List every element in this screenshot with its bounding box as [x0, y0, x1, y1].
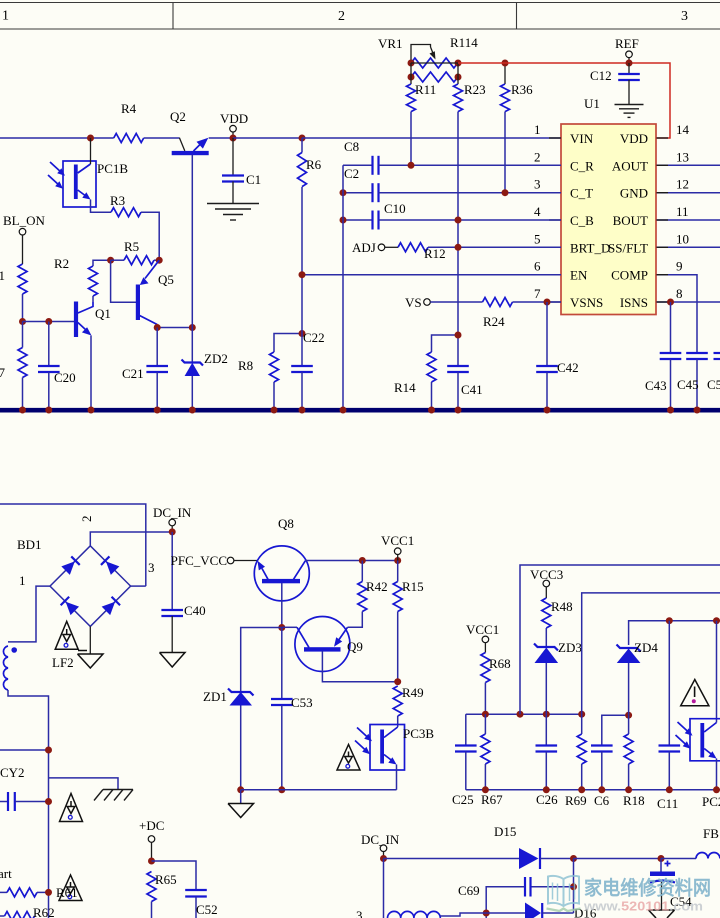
svg-text:5: 5	[534, 231, 541, 246]
resistor R67	[481, 714, 503, 807]
svg-text:C20: C20	[54, 370, 76, 385]
node R12/BRT_D	[455, 244, 462, 251]
node R61	[45, 889, 52, 896]
port +DC	[139, 818, 164, 861]
wire frame B	[582, 593, 720, 714]
safety triangle R61	[56, 875, 82, 901]
zener ZD3	[534, 640, 582, 714]
pin 9 COMP	[611, 259, 697, 353]
node C11 on frame C	[666, 617, 673, 624]
power port VCC1	[381, 533, 414, 561]
svg-text:C43: C43	[645, 378, 667, 393]
capacitor C45	[677, 353, 708, 408]
node VCC1/R15	[394, 557, 401, 564]
capacitor C22	[291, 275, 324, 408]
svg-text:C_T: C_T	[570, 186, 593, 201]
capacitor C25	[452, 714, 477, 807]
svg-text:C26: C26	[536, 792, 558, 807]
wire cap left rail down to bus	[342, 165, 344, 408]
svg-text:R68: R68	[489, 656, 511, 671]
svg-text:VIN: VIN	[570, 131, 594, 146]
resistor R2	[54, 256, 111, 302]
resistor R21 (label clipped)	[0, 264, 27, 294]
port DC_IN	[153, 505, 192, 532]
transistor Q2	[170, 109, 209, 155]
diode D15	[494, 824, 574, 869]
svg-text:3: 3	[681, 9, 688, 24]
node C22 tap	[299, 330, 306, 337]
svg-text:3: 3	[148, 560, 155, 575]
node CY2	[45, 798, 52, 805]
resistor R11	[407, 82, 437, 165]
resistor R3	[110, 193, 141, 217]
capacitor C11	[657, 621, 680, 811]
IC pin stubs	[549, 138, 668, 302]
svg-text:C5: C5	[707, 377, 720, 392]
node R36 top on red net	[502, 60, 509, 67]
node ZD1 bottom	[237, 786, 244, 793]
wire top feed	[0, 504, 146, 586]
wire bridge pin4 to ground	[89, 626, 91, 653]
svg-text:R5: R5	[124, 239, 139, 254]
power port VDD	[220, 111, 248, 138]
pin 11 BOUT	[613, 204, 720, 228]
node PC2 on frame C	[713, 617, 720, 624]
svg-text:BRT_D: BRT_D	[570, 240, 610, 255]
wire VDD rail left	[0, 137, 114, 139]
zener ZD2	[182, 328, 228, 409]
wire Q9 collector	[322, 651, 397, 682]
node C21	[154, 324, 161, 331]
wire to chassis ground	[49, 778, 119, 790]
svg-text:12: 12	[676, 177, 689, 192]
wire bottom row	[466, 789, 720, 791]
resistor R68	[481, 653, 511, 715]
svg-text:10: 10	[676, 231, 689, 246]
wire Q8 base	[281, 583, 283, 628]
svg-text:+DC: +DC	[139, 818, 164, 833]
svg-text:VCC1: VCC1	[466, 622, 499, 637]
svg-text:13: 13	[676, 149, 689, 164]
pin 2 C_R	[534, 149, 594, 173]
wire mid row 1	[466, 713, 582, 715]
svg-text:R36: R36	[511, 82, 533, 97]
wire mid row 2	[602, 715, 629, 745]
svg-text:VS: VS	[405, 295, 422, 310]
node base line left	[19, 318, 26, 325]
power port VCC3	[530, 567, 563, 598]
wire local ground row	[241, 789, 397, 791]
svg-text:Q1: Q1	[95, 306, 111, 321]
svg-text:21: 21	[0, 268, 5, 283]
capacitor C20	[38, 322, 76, 409]
bus junction nodes	[19, 407, 701, 414]
node R5 left	[107, 257, 114, 264]
capacitor C43	[645, 302, 681, 408]
svg-text:C52: C52	[196, 902, 218, 917]
capacitor C53	[271, 628, 313, 790]
resistor R4	[114, 101, 144, 143]
svg-text:ZD1: ZD1	[203, 689, 227, 704]
node C20 tap	[45, 318, 52, 325]
svg-text:CY2: CY2	[0, 765, 25, 780]
svg-text:PC3B: PC3B	[403, 726, 434, 741]
node ISNS C43 tap	[667, 299, 674, 306]
wire R6 to EN node	[301, 187, 303, 275]
svg-text:C41: C41	[461, 382, 483, 397]
border strip top	[0, 3, 720, 30]
svg-text:R8: R8	[238, 358, 253, 373]
svg-text:3: 3	[534, 177, 541, 192]
svg-text:7: 7	[534, 286, 541, 301]
pin 1 VIN	[534, 122, 594, 146]
resistor R12	[398, 243, 561, 261]
node C2 left	[340, 189, 347, 196]
svg-text:R14: R14	[394, 380, 416, 395]
svg-text:ISNS: ISNS	[620, 295, 648, 310]
svg-text:DC_IN: DC_IN	[361, 832, 400, 847]
node VR1 right bottom	[455, 74, 462, 81]
capacitor C10 on C_B line	[343, 201, 561, 230]
svg-text:1: 1	[534, 122, 541, 137]
svg-text:GND: GND	[620, 186, 648, 201]
svg-text:R65: R65	[155, 872, 177, 887]
node ZD4/R18/C6	[625, 712, 632, 719]
wire Q8 collector rail	[305, 560, 397, 562]
wire rail VDD to R6	[233, 137, 302, 139]
svg-text:R42: R42	[366, 579, 388, 594]
pin 3 C_T	[534, 177, 593, 201]
capacitor C40	[161, 532, 205, 652]
wire DC_IN vertical	[383, 859, 385, 918]
svg-text:DC_IN: DC_IN	[153, 505, 192, 520]
capacitor C2 on C_T line	[343, 166, 561, 202]
svg-text:R3: R3	[110, 193, 125, 208]
svg-text:R15: R15	[402, 579, 424, 594]
inductor FB	[696, 826, 720, 859]
potentiometer VR1	[378, 36, 458, 68]
resistor R69	[565, 714, 587, 808]
wire PC3B emitter down	[396, 765, 398, 790]
wire to FB	[661, 858, 696, 860]
svg-text:4: 4	[534, 204, 541, 219]
svg-text:C45: C45	[677, 377, 699, 392]
node R42 top	[359, 557, 366, 564]
node R15/R49	[394, 678, 401, 685]
node R11 on C_R	[408, 162, 415, 169]
port PFC_VCC	[171, 553, 258, 568]
ground bus (thick)	[0, 408, 720, 413]
svg-text:1: 1	[19, 573, 26, 588]
capacitor C12	[590, 63, 640, 104]
node y750	[45, 747, 52, 754]
svg-text:R6: R6	[306, 157, 322, 172]
wire stub left y750	[0, 749, 49, 751]
wire to Q1 base line	[22, 294, 24, 322]
svg-text:11: 11	[676, 204, 689, 219]
pin 13 AOUT	[612, 149, 720, 173]
svg-text:COMP: COMP	[611, 268, 648, 283]
pin 12 GND	[620, 177, 720, 201]
wire LF2 to left column	[8, 690, 49, 918]
capacitor C69	[458, 877, 574, 918]
svg-text:C22: C22	[303, 330, 325, 345]
port ADJ	[352, 240, 398, 255]
node EN R6	[299, 271, 306, 278]
svg-text:C21: C21	[122, 366, 144, 381]
svg-text:EN: EN	[570, 268, 588, 283]
svg-text:VR1: VR1	[378, 36, 403, 51]
pin 6 EN	[534, 259, 588, 283]
svg-text:R23: R23	[464, 82, 486, 97]
resistor R14	[394, 335, 458, 408]
safety triangle CY2	[60, 794, 83, 822]
svg-text:R4: R4	[121, 101, 137, 116]
svg-text:C42: C42	[557, 360, 579, 375]
svg-text:2: 2	[338, 9, 345, 24]
svg-text:R61: R61	[56, 885, 78, 900]
capacitor C52	[152, 861, 218, 918]
node C54	[658, 855, 665, 862]
capacitor C1	[222, 138, 261, 203]
svg-text:BL_ON: BL_ON	[3, 213, 46, 228]
transformer winding (clipped)	[356, 908, 486, 918]
resistor R23	[454, 82, 486, 366]
wire PC1B collector	[90, 138, 92, 164]
pin 4 C_B	[534, 204, 594, 228]
node C53 bottom	[278, 786, 285, 793]
svg-text:R67: R67	[481, 792, 503, 807]
watermark logo book	[547, 876, 581, 911]
optocoupler PC2 (clipped)	[676, 621, 720, 809]
node D16 anode	[483, 910, 490, 917]
optocoupler PC1B	[48, 161, 128, 207]
node Q8 base	[278, 624, 285, 631]
ground under C1	[207, 204, 259, 221]
ground under bridge	[78, 651, 104, 669]
node ZD3/C26	[543, 711, 550, 718]
power port VCC1 (sense)	[466, 622, 499, 653]
op-amp U1 IC body	[561, 96, 656, 315]
resistor R114	[411, 35, 478, 82]
capacitor CY2	[0, 765, 49, 811]
svg-text:SS/FLT: SS/FLT	[608, 240, 648, 255]
wire ground stub	[240, 790, 242, 804]
node ZD2 / Q2 base	[189, 324, 196, 331]
svg-text:27: 27	[0, 365, 6, 380]
wire Q1 base line	[23, 321, 75, 323]
resistor R65	[147, 872, 177, 918]
resistor R48	[542, 598, 573, 646]
wire VR1 stubs	[411, 63, 458, 84]
pin 10 SS/FLT	[608, 231, 720, 255]
resistor R18	[623, 715, 645, 808]
svg-text:ZD3: ZD3	[558, 640, 582, 655]
warning triangle	[681, 680, 709, 706]
svg-text:REF: REF	[615, 36, 639, 51]
svg-text:BD1: BD1	[17, 537, 42, 552]
svg-text:C_R: C_R	[570, 158, 594, 173]
svg-text:Q2: Q2	[170, 109, 186, 124]
svg-text:VDD: VDD	[620, 131, 648, 146]
resistor R49	[393, 685, 423, 727]
chassis ground	[94, 790, 133, 801]
node C69 right	[570, 883, 577, 890]
ground under C40	[160, 653, 186, 668]
transistor Q9	[282, 617, 363, 672]
svg-text:R12: R12	[424, 246, 446, 261]
resistor R24	[483, 298, 562, 330]
node R23 on C_B	[455, 217, 462, 224]
svg-text:BOUT: BOUT	[613, 213, 648, 228]
svg-text:R69: R69	[565, 793, 587, 808]
svg-text:AOUT: AOUT	[612, 158, 648, 173]
node R36 bottom	[502, 189, 509, 196]
wire bridge pin3	[131, 585, 146, 587]
resistor R62 (clipped)	[0, 905, 55, 918]
diode D16	[486, 903, 597, 918]
wire rail Q2 to VDD	[209, 137, 233, 139]
pin 14 VDD	[620, 122, 690, 146]
svg-text:C11: C11	[657, 796, 678, 811]
wire rail R4 to Q2	[144, 137, 180, 139]
svg-text:www.520101.com: www.520101.com	[583, 900, 703, 914]
svg-text:Q8: Q8	[278, 516, 294, 531]
pin 5 BRT_D	[534, 231, 610, 255]
node VR1 right top	[455, 60, 462, 67]
resistor R61	[0, 888, 49, 897]
junction VDD rail	[230, 135, 237, 142]
wire x573 vertical	[573, 859, 575, 914]
svg-text:C8: C8	[344, 139, 359, 154]
resistor R15	[393, 561, 423, 682]
svg-text:C25: C25	[452, 792, 474, 807]
resistor R8	[238, 334, 302, 409]
svg-text:R114: R114	[450, 35, 478, 50]
bridge rectifier BD1	[17, 516, 155, 627]
svg-text:ZD2: ZD2	[204, 351, 228, 366]
svg-text:1: 1	[2, 9, 9, 24]
capacitor C26	[536, 714, 559, 807]
svg-text:8: 8	[676, 286, 683, 301]
node R5 right	[156, 257, 163, 264]
port BL_ON	[3, 213, 46, 264]
wire Q1 emitter to bus	[90, 336, 92, 409]
capacitor C41	[447, 366, 482, 408]
capacitor C42	[536, 302, 578, 408]
node REF tap	[626, 60, 633, 67]
transistor Q5	[111, 260, 174, 324]
wire EN line	[302, 274, 561, 276]
wire bridge pin1 to LF2	[8, 586, 50, 642]
wire DC_IN to D15	[384, 858, 520, 860]
svg-text:C_B: C_B	[570, 213, 594, 228]
svg-text:C10: C10	[384, 201, 406, 216]
wire red REF net to pin14	[458, 63, 670, 138]
node DC_IN bottom	[380, 855, 387, 862]
node VR1 left top	[408, 60, 415, 67]
wire to C54 node	[574, 858, 662, 860]
port VS	[405, 295, 483, 310]
transistor Q1	[74, 302, 111, 338]
node R14/C41	[455, 332, 462, 339]
svg-text:D15: D15	[494, 824, 516, 839]
safety triangle LF2	[55, 621, 78, 649]
node C10 left	[340, 217, 347, 224]
power port REF	[615, 36, 639, 63]
node R69/frame B	[578, 711, 585, 718]
svg-text:9: 9	[676, 259, 683, 274]
zener ZD4	[617, 640, 659, 715]
capacitor C8 on C_R line	[343, 139, 561, 175]
wire VR1 top link	[411, 62, 458, 64]
pin 7 VSNS	[534, 286, 603, 310]
svg-text:C6: C6	[594, 793, 610, 808]
svg-text:PC2: PC2	[702, 794, 720, 809]
wire Q2 base down	[191, 155, 193, 328]
svg-text:VSNS: VSNS	[570, 295, 603, 310]
svg-text:VDD: VDD	[220, 111, 248, 126]
bottom row nodes	[482, 786, 720, 793]
svg-text:C1: C1	[246, 172, 261, 187]
svg-text:R48: R48	[551, 599, 573, 614]
optocoupler PC3B	[355, 725, 434, 771]
port DC_IN (bottom)	[361, 832, 400, 859]
svg-text:ADJ: ADJ	[352, 240, 376, 255]
svg-text:R18: R18	[623, 793, 645, 808]
resistor R42	[348, 561, 388, 628]
node C42 tap	[544, 299, 551, 306]
zener ZD1	[203, 628, 282, 790]
svg-text:14: 14	[676, 122, 690, 137]
svg-text:PFC_VCC: PFC_VCC	[171, 553, 227, 568]
svg-text:R49: R49	[402, 685, 424, 700]
svg-text:R62: R62	[33, 905, 55, 918]
node VR1 left bottom	[408, 74, 415, 81]
svg-text:VCC1: VCC1	[381, 533, 414, 548]
svg-text:6: 6	[534, 259, 541, 274]
svg-text:art: art	[0, 866, 12, 881]
svg-text:FB: FB	[703, 826, 719, 841]
svg-text:R24: R24	[483, 314, 505, 329]
svg-text:C40: C40	[184, 603, 206, 618]
wire PC1B emitter to R3	[91, 200, 112, 213]
svg-text:C69: C69	[458, 883, 480, 898]
node +DC	[148, 858, 155, 865]
pin 8 ISNS	[620, 286, 720, 310]
resistor R27 (label clipped)	[0, 322, 27, 409]
svg-text:C12: C12	[590, 68, 612, 83]
svg-text:PC1B: PC1B	[97, 161, 128, 176]
svg-text:LF2: LF2	[52, 655, 74, 670]
wire R3 to R5 node	[141, 212, 159, 260]
inductor LF2	[3, 646, 73, 690]
capacitor C54 electrolytic	[650, 859, 692, 910]
wire Q5 collector node line	[157, 325, 192, 328]
svg-text:3: 3	[356, 908, 363, 918]
svg-text:C2: C2	[344, 166, 359, 181]
svg-text:C53: C53	[291, 695, 313, 710]
junction R6 rail	[299, 135, 306, 142]
wire frame C	[629, 621, 720, 645]
svg-text:U1: U1	[584, 96, 600, 111]
wire bridge pin2 to DC_IN	[90, 532, 172, 546]
svg-text:家电维修资料网: 家电维修资料网	[584, 877, 711, 900]
svg-text:R2: R2	[54, 256, 69, 271]
node D15 cathode	[570, 855, 577, 862]
resistor R5	[111, 239, 160, 265]
ground under C12	[615, 105, 644, 118]
